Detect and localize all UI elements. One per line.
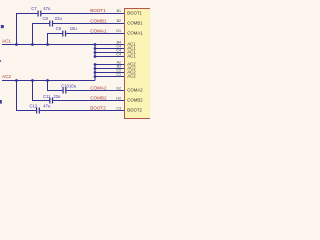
capacitor C7	[38, 11, 42, 17]
svg-text:COMB2: COMB2	[90, 95, 107, 100]
svg-text:C3: C3	[116, 106, 121, 110]
junction on AC2 bus at x32.5	[31, 79, 34, 82]
wire AC1 pin 2	[95, 48, 125, 50]
wire AC1 pin fanout vertical	[94, 45, 96, 57]
svg-text:COMA2: COMA2	[127, 88, 143, 93]
svg-text:COMB2: COMB2	[127, 98, 143, 103]
svg-text:G1: G1	[116, 29, 121, 33]
svg-text:H2: H2	[116, 96, 121, 100]
svg-text:AC1: AC1	[2, 38, 11, 43]
svg-text:10u: 10u	[69, 84, 77, 89]
wire AC1 bus	[2, 44, 95, 46]
junction on AC2 bus at x47.5	[46, 79, 49, 82]
capacitor C12	[36, 108, 40, 114]
svg-text:C12: C12	[30, 104, 38, 109]
svg-text:22u: 22u	[53, 94, 61, 99]
clipped label fragment (left edge, top)	[1, 25, 4, 28]
svg-text:COMB1: COMB1	[90, 18, 107, 23]
svg-text:G2: G2	[116, 86, 121, 90]
wire AC2 pin 1	[95, 64, 125, 66]
junction AC1 fanout pin1	[94, 43, 97, 46]
capacitor C8	[49, 21, 53, 27]
svg-text:AC2: AC2	[2, 74, 11, 79]
wire AC1 pin 4	[95, 56, 125, 58]
junction AC2 fanout pin3	[94, 71, 97, 74]
junction AC1 fanout pin4	[94, 55, 97, 58]
junction AC1 fanout pin3	[94, 51, 97, 54]
svg-text:C11: C11	[43, 94, 51, 99]
wire AC2 pin fanout vertical	[94, 65, 96, 81]
svg-text:BOOT1: BOOT1	[127, 11, 142, 16]
wire riser to C7 row	[17, 14, 125, 45]
svg-text:BOOT2: BOOT2	[90, 105, 106, 110]
svg-text:22u: 22u	[55, 16, 63, 21]
wire riser to C10 row	[48, 81, 125, 91]
wire AC1 pin 1	[95, 44, 125, 46]
wire AC2 pin 4	[95, 76, 125, 78]
wire AC1 pin 3	[95, 52, 125, 54]
wire riser to C8 row	[33, 24, 125, 45]
junction on AC2 bus at x16.5	[15, 79, 18, 82]
svg-text:C8: C8	[43, 16, 49, 21]
wire AC2 bus	[2, 80, 95, 82]
svg-text:BOOT1: BOOT1	[90, 8, 106, 13]
junction on AC1 bus at x16.5	[15, 43, 18, 46]
component box U1	[125, 9, 152, 119]
svg-text:C9: C9	[56, 26, 62, 31]
wire riser to C12 row	[17, 81, 125, 111]
svg-text:COMA1: COMA1	[90, 28, 107, 33]
svg-text:C4: C4	[116, 53, 121, 57]
svg-text:COMA2: COMA2	[90, 85, 107, 90]
svg-text:B2: B2	[117, 19, 121, 23]
capacitor C9	[62, 31, 66, 37]
svg-text:C7: C7	[31, 6, 37, 11]
junction AC1 fanout pin2	[94, 47, 97, 50]
capacitor C10	[63, 88, 67, 94]
junction AC2 fanout pin4	[94, 75, 97, 78]
wire AC2 pin 3	[95, 72, 125, 74]
wire riser to C9 row	[48, 34, 125, 45]
junction on AC1 bus at x32.5	[31, 43, 34, 46]
capacitor C11	[49, 98, 53, 104]
junction on AC1 bus at x47.5	[46, 43, 49, 46]
svg-text:B1: B1	[117, 9, 121, 13]
junction AC2 fanout pin1	[94, 63, 97, 66]
wire AC2 pin 2	[95, 68, 125, 70]
svg-text:COMA1: COMA1	[127, 31, 143, 36]
wire riser to C11 row	[33, 81, 125, 101]
svg-text:AC1: AC1	[127, 54, 136, 59]
clipped label fragment (left edge, bottom)	[0, 100, 2, 104]
svg-text:C1: C1	[116, 73, 121, 77]
svg-text:10u: 10u	[70, 26, 78, 31]
svg-text:COMB1: COMB1	[127, 21, 143, 26]
clipped label fragment (left edge, middle)	[0, 60, 1, 62]
svg-text:AC2: AC2	[127, 74, 136, 79]
svg-text:47u: 47u	[43, 6, 51, 11]
svg-text:BOOT2: BOOT2	[127, 108, 142, 113]
svg-text:47u: 47u	[43, 104, 51, 109]
junction AC2 fanout pin2	[94, 67, 97, 70]
